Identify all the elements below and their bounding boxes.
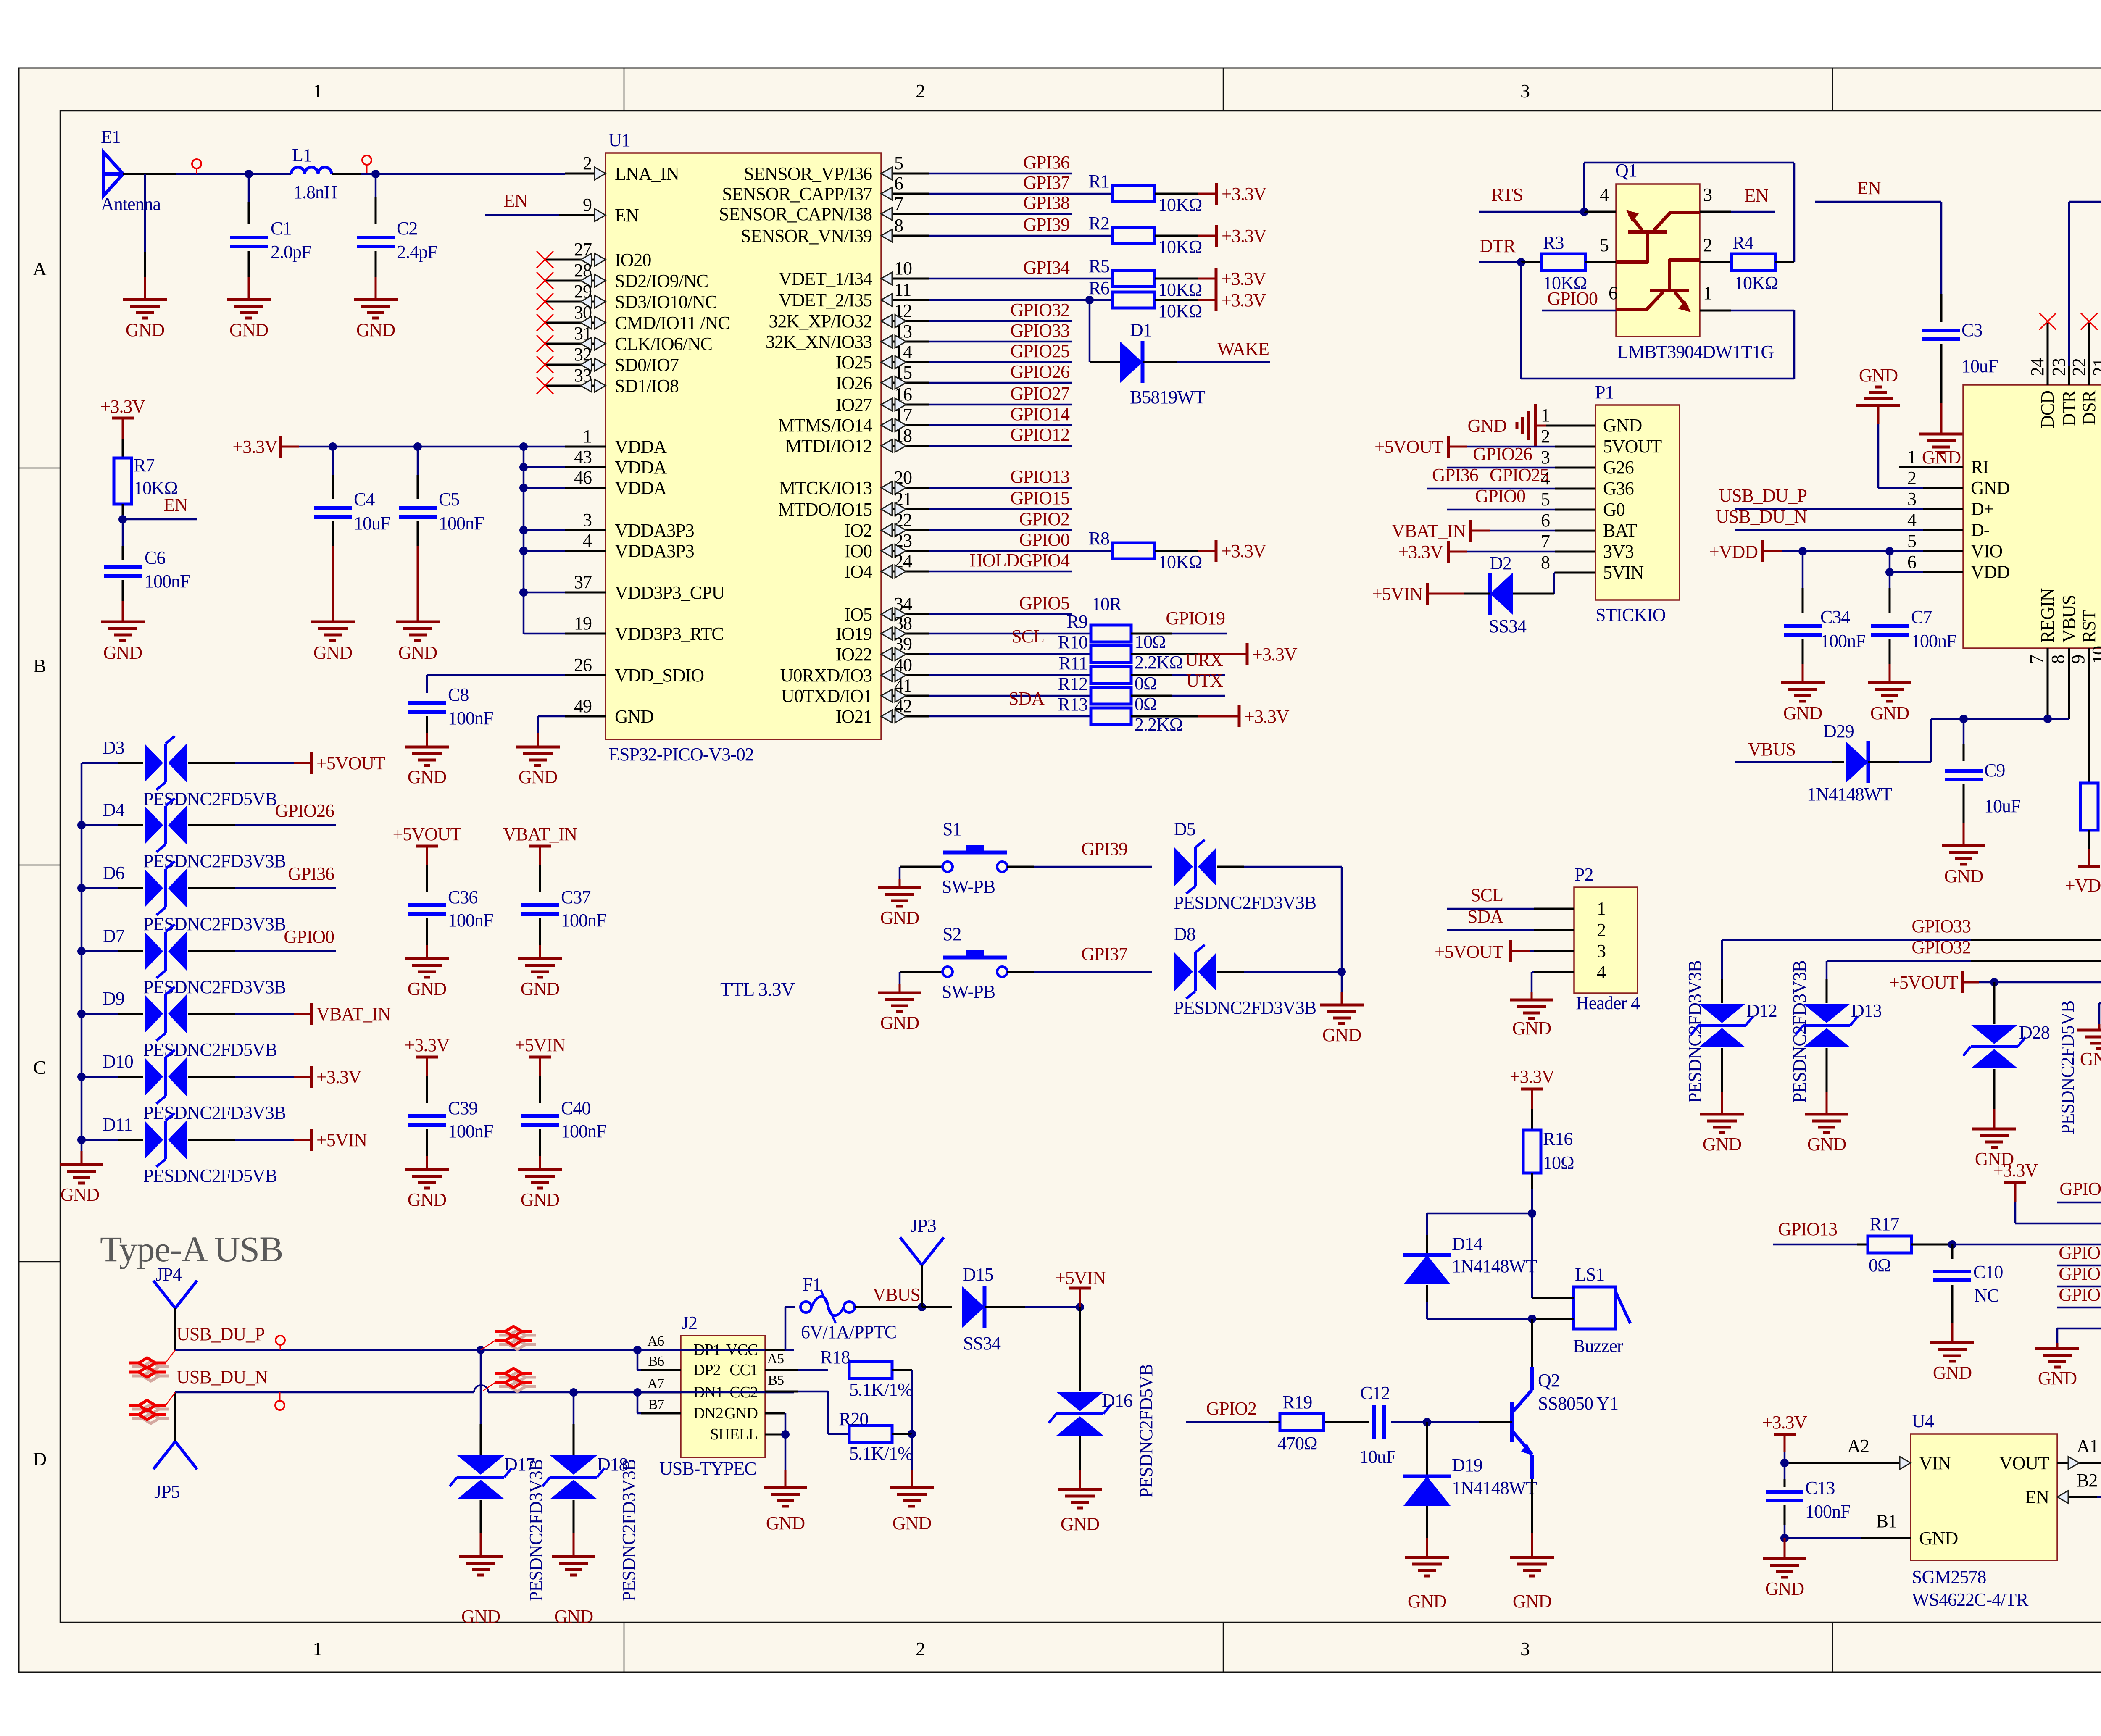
U2 pin 23 DTR	[2068, 366, 2070, 385]
resistor R1	[1113, 186, 1155, 202]
net USB_DU_P U2	[1735, 508, 1923, 510]
svg-text:5: 5	[1907, 531, 1916, 551]
svg-text:+5VOUT: +5VOUT	[316, 753, 385, 773]
svg-text:1: 1	[1907, 447, 1916, 467]
U1 pin 15 IO26	[881, 382, 929, 384]
svg-text:DP2: DP2	[693, 1361, 721, 1379]
U1 pin 30 CMD/IO11 /NC	[545, 322, 606, 324]
wire S2 to D8	[1007, 971, 1034, 973]
wire R18 right	[892, 1369, 912, 1371]
svg-text:R12: R12	[1058, 673, 1087, 694]
svg-text:10: 10	[2088, 646, 2101, 664]
P1 pin 3 G26	[1555, 467, 1595, 469]
svg-text:10KΩ: 10KΩ	[1158, 237, 1202, 257]
svg-text:+VDD: +VDD	[1709, 542, 1758, 562]
svg-text:DN2: DN2	[693, 1405, 723, 1422]
wire D13 drop	[1826, 961, 1828, 979]
wire to vdd pin	[524, 466, 565, 468]
svg-text:10: 10	[894, 258, 912, 279]
wire S1 to D5	[1007, 866, 1034, 868]
svg-text:JP4: JP4	[156, 1264, 182, 1285]
svg-text:100nF: 100nF	[448, 708, 493, 729]
svg-text:GND: GND	[1971, 478, 2010, 498]
U2 pin 8 VBUS	[2068, 648, 2070, 719]
svg-text:IO2: IO2	[845, 520, 872, 541]
svg-text:NC: NC	[1974, 1285, 1999, 1306]
svg-text:5: 5	[894, 153, 903, 174]
svg-text:+3.3V: +3.3V	[316, 1067, 362, 1087]
svg-text:3: 3	[1520, 1638, 1530, 1660]
resistor R3	[1542, 254, 1585, 271]
svg-text:C10: C10	[1973, 1262, 2003, 1282]
wire P2 pin4 gnd	[1532, 971, 1534, 973]
svg-text:D2: D2	[1490, 553, 1511, 573]
svg-text:49: 49	[574, 696, 592, 716]
svg-text:D+: D+	[1971, 499, 1994, 519]
svg-text:C2: C2	[397, 218, 417, 239]
node J2 A6 junction	[633, 1346, 642, 1354]
wire S1 gnd side	[900, 866, 943, 868]
wire EN drop to C3	[1940, 202, 1943, 294]
svg-text:GND: GND	[724, 1405, 758, 1422]
svg-text:R17: R17	[1869, 1214, 1899, 1234]
svg-text:NC: NC	[2099, 618, 2101, 643]
svg-text:D29: D29	[1823, 721, 1854, 742]
svg-text:TXD: TXD	[2099, 391, 2101, 428]
U2 pin 22 DSR	[2088, 323, 2090, 385]
svg-text:VDET_2/I35: VDET_2/I35	[779, 290, 872, 310]
ground Q2	[1510, 1557, 1554, 1576]
net GPIO2	[1269, 1421, 1280, 1423]
svg-text:GND: GND	[1922, 447, 1961, 468]
svg-text:2: 2	[583, 153, 592, 174]
U1 pin 26 VDD_SDIO	[565, 674, 606, 676]
svg-text:VIO: VIO	[1971, 541, 2002, 561]
ground C36	[405, 959, 449, 977]
svg-text:GPIO15: GPIO15	[2059, 1242, 2101, 1263]
svg-text:PESDNC2FD3V3B: PESDNC2FD3V3B	[526, 1459, 546, 1602]
svg-text:EN: EN	[163, 494, 187, 515]
U2 pin 5 VIO	[1923, 550, 1963, 552]
ground D18	[552, 1557, 595, 1575]
svg-text:GND: GND	[1807, 1134, 1846, 1155]
svg-text:PESDNC2FD3V3B: PESDNC2FD3V3B	[143, 977, 286, 997]
U2 pin 6 VDD	[1923, 571, 1963, 573]
svg-text:GND: GND	[615, 706, 654, 727]
svg-text:D13: D13	[1851, 1000, 1882, 1021]
connector J2 USB-TYPEC body	[681, 1336, 765, 1457]
svg-text:MTDO/IO15: MTDO/IO15	[778, 499, 872, 520]
svg-text:USB_DU_P: USB_DU_P	[1719, 485, 1807, 506]
svg-text:A6: A6	[647, 1334, 664, 1349]
resistor R2	[1113, 228, 1155, 244]
svg-text:100nF: 100nF	[1805, 1501, 1850, 1522]
net GPIO14 U3	[2057, 1286, 2101, 1288]
svg-text:D28: D28	[2019, 1022, 2050, 1043]
svg-text:GND: GND	[408, 767, 447, 787]
net GPIO32	[929, 320, 1072, 322]
svg-text:GPIO2: GPIO2	[1206, 1398, 1256, 1419]
svg-text:R8: R8	[1089, 528, 1109, 549]
net GPIO32 J1	[1827, 960, 1971, 962]
wire C2 to gnd	[375, 251, 377, 277]
svg-text:GPIO2: GPIO2	[1019, 509, 1069, 529]
svg-text:EN: EN	[503, 190, 527, 211]
svg-text:PESDNC2FD5VB: PESDNC2FD5VB	[143, 1165, 277, 1186]
net GPIO26	[929, 382, 1072, 384]
svg-text:5: 5	[1541, 489, 1550, 510]
resistor R8	[1113, 543, 1155, 559]
svg-text:2: 2	[1541, 426, 1550, 447]
svg-text:+3.3V: +3.3V	[1510, 1066, 1555, 1087]
node USB N junction	[569, 1388, 578, 1397]
ground S2	[878, 993, 921, 1011]
node R16 bottom	[1528, 1209, 1536, 1218]
svg-text:D3: D3	[103, 737, 124, 758]
resistor R19	[1280, 1414, 1324, 1431]
svg-text:100nF: 100nF	[448, 1121, 493, 1142]
ic U1 ESP32-PICO-V3-02 body	[606, 153, 881, 739]
net GPIO5 U3	[2057, 1202, 2101, 1204]
svg-text:ESP32-PICO-V3-02: ESP32-PICO-V3-02	[608, 744, 754, 765]
net GPI36	[929, 173, 1072, 175]
capacitor C7	[1871, 624, 1909, 628]
svg-text:VDDA: VDDA	[615, 437, 667, 457]
ground C37	[518, 959, 562, 977]
svg-text:R5: R5	[1089, 256, 1109, 276]
svg-text:3: 3	[1703, 184, 1712, 205]
svg-text:SENSOR_CAPN/I38: SENSOR_CAPN/I38	[719, 204, 872, 224]
net GPIO12	[929, 445, 1072, 447]
node junction C2	[371, 170, 380, 178]
net GPIO26 P1	[1447, 467, 1555, 469]
svg-text:B7: B7	[648, 1397, 664, 1412]
U1 pin 34 IO5	[881, 613, 929, 615]
diode D15 SS34	[962, 1286, 985, 1328]
U1 pin 3 VDDA3P3	[565, 529, 606, 531]
svg-text:D9: D9	[103, 988, 124, 1009]
wire TVS left bus	[81, 763, 83, 1140]
U1 pin 42 IO21	[881, 715, 929, 718]
node +5VIN junction	[1076, 1303, 1084, 1311]
svg-text:IO22: IO22	[836, 644, 872, 665]
net EN to C3	[1815, 201, 1941, 203]
svg-text:U4: U4	[1912, 1411, 1934, 1431]
svg-text:GPIO26: GPIO26	[275, 800, 334, 821]
U1 pin 1 VDDA	[565, 446, 606, 448]
U1 pin 5 SENSOR_VP/I36	[881, 173, 929, 175]
svg-text:E1: E1	[101, 126, 121, 147]
svg-text:B5819WT: B5819WT	[1130, 387, 1206, 408]
svg-text:SENSOR_CAPP/I37: SENSOR_CAPP/I37	[722, 184, 872, 204]
svg-text:BAT: BAT	[1603, 520, 1637, 541]
node C9 tap	[1959, 715, 1968, 723]
svg-text:22: 22	[2069, 358, 2089, 376]
svg-text:GND: GND	[1468, 416, 1507, 436]
wire R17 to U3 pin3	[1952, 1244, 2101, 1246]
svg-text:+3.3V: +3.3V	[1762, 1412, 1808, 1433]
svg-text:GPI39: GPI39	[1081, 839, 1127, 859]
svg-text:GND: GND	[1765, 1578, 1804, 1599]
U1 pin 41 U0TXD/IO1	[881, 695, 929, 697]
svg-text:+5VIN: +5VIN	[316, 1130, 367, 1150]
wire C10 drop	[1951, 1244, 1954, 1259]
J2 pin A7	[641, 1391, 681, 1394]
svg-text:21: 21	[2089, 358, 2101, 376]
svg-text:8: 8	[2048, 655, 2068, 664]
svg-text:R10: R10	[1058, 632, 1087, 652]
svg-text:100nF: 100nF	[561, 910, 606, 931]
svg-text:2: 2	[1907, 468, 1916, 488]
wire VBUS bus	[1931, 718, 2069, 720]
U1 pin 13 32K_XN/IO33	[881, 341, 929, 343]
U2 pin 9 RST	[2088, 648, 2090, 724]
ground S1	[878, 888, 921, 906]
U1 pin 46 VDDA	[565, 487, 606, 489]
svg-text:GND: GND	[1933, 1362, 1972, 1383]
tvs diode D17 PESDNC2FD3V3B	[457, 1455, 504, 1475]
diffpair marker 1	[132, 1362, 169, 1381]
svg-text:+5VOUT: +5VOUT	[392, 824, 461, 844]
svg-text:B6: B6	[648, 1354, 664, 1369]
capacitor C3	[1922, 329, 1960, 332]
svg-text:D: D	[33, 1448, 46, 1470]
net DTR Q1	[1479, 261, 1519, 263]
ground C13	[1763, 1559, 1806, 1577]
ground J2	[764, 1488, 807, 1506]
svg-text:VDET_1/I34: VDET_1/I34	[779, 268, 872, 289]
ground C8	[405, 747, 449, 765]
svg-text:PESDNC2FD3V3B: PESDNC2FD3V3B	[1685, 960, 1705, 1103]
svg-text:GPI37: GPI37	[1081, 944, 1127, 964]
svg-text:U0RXD/IO3: U0RXD/IO3	[780, 665, 872, 686]
resistor R4	[1732, 254, 1775, 271]
svg-text:1: 1	[1597, 898, 1606, 919]
diode D29 1N4148WT	[1846, 741, 1868, 783]
svg-text:R20: R20	[839, 1409, 868, 1429]
wire R1 to 3.3V	[1155, 193, 1198, 195]
svg-text:U0TXD/IO1: U0TXD/IO1	[781, 686, 872, 706]
wire pin26 to C8	[427, 674, 565, 676]
svg-text:GPIO0: GPIO0	[284, 926, 334, 947]
wire to vdd pin	[524, 529, 565, 531]
svg-text:UTX: UTX	[1186, 670, 1223, 691]
tvs diode D8 PESDNC2FD3V3B	[1174, 952, 1193, 991]
net GPIO5	[929, 613, 1072, 615]
testpoint circle	[192, 159, 201, 168]
wire Q2 emitter gnd	[1531, 1479, 1533, 1533]
svg-text:MTMS/IO14: MTMS/IO14	[778, 415, 872, 436]
svg-text:EN: EN	[615, 205, 639, 226]
testpoint circle 2	[362, 155, 371, 165]
svg-text:USB-TYPEC: USB-TYPEC	[659, 1458, 756, 1479]
svg-text:C5: C5	[439, 489, 459, 510]
net GPIO33	[929, 341, 1072, 343]
svg-text:VBUS: VBUS	[2059, 595, 2079, 643]
svg-text:GPIO5: GPIO5	[2059, 1178, 2101, 1199]
U1 pin 16 IO27	[881, 404, 929, 406]
svg-text:VOUT: VOUT	[1999, 1453, 2049, 1473]
ground D19	[1405, 1557, 1449, 1576]
svg-text:GND: GND	[1783, 703, 1822, 723]
svg-text:GND: GND	[2080, 1049, 2101, 1069]
svg-text:USB_DU_N: USB_DU_N	[176, 1367, 268, 1387]
svg-text:+3.3V: +3.3V	[1252, 644, 1298, 665]
power +5VIN J2	[1079, 1288, 1081, 1307]
resistor R20	[849, 1426, 892, 1442]
svg-text:D8: D8	[1174, 924, 1195, 944]
svg-text:D16: D16	[1102, 1390, 1132, 1411]
wire D15 to +5VIN	[985, 1306, 1025, 1308]
wire VIO to VDD	[1889, 551, 1891, 572]
wire to pin19	[524, 633, 565, 635]
svg-text:A5: A5	[767, 1351, 784, 1367]
U4 pin A1 VOUT wire	[2057, 1462, 2101, 1464]
svg-text:C: C	[33, 1057, 46, 1078]
capacitor C9	[1945, 769, 1983, 773]
svg-text:D12: D12	[1746, 1000, 1777, 1021]
connector P2 Header4 body	[1574, 887, 1638, 993]
resistor R13	[929, 715, 1090, 718]
svg-text:R11: R11	[1058, 653, 1087, 673]
P1 pin 6 BAT	[1555, 530, 1595, 532]
switch S2 SW-PB	[943, 967, 953, 977]
tvs diode D28 PESDNC2FD5VB	[1971, 1025, 2018, 1044]
svg-text:DSR: DSR	[2079, 390, 2099, 425]
svg-text:MTDI/IO12: MTDI/IO12	[785, 436, 872, 456]
svg-text:C34: C34	[1820, 607, 1850, 627]
diode D14 1N4148WT	[1403, 1255, 1451, 1284]
svg-text:R19: R19	[1282, 1392, 1312, 1412]
tvs diode D10 PESDNC2FD3V3B	[77, 1073, 86, 1081]
svg-text:IO27: IO27	[836, 395, 872, 415]
svg-text:GND: GND	[893, 1513, 932, 1533]
U2 pin 4 D-	[1923, 529, 1963, 531]
svg-text:P2: P2	[1574, 864, 1593, 885]
svg-text:GPIO0: GPIO0	[1547, 288, 1598, 309]
svg-text:S2: S2	[943, 924, 961, 944]
svg-text:RST: RST	[2079, 610, 2099, 643]
svg-text:VDD3P3_CPU: VDD3P3_CPU	[615, 582, 725, 603]
svg-text:C40: C40	[561, 1098, 590, 1118]
svg-text:+5VIN: +5VIN	[1055, 1268, 1106, 1288]
column dividers	[624, 68, 625, 111]
U1 pin 23 IO0	[881, 550, 929, 552]
node D1 tap	[1085, 296, 1094, 304]
svg-text:SCL: SCL	[1011, 626, 1044, 647]
svg-text:2: 2	[916, 80, 925, 102]
svg-text:8: 8	[894, 215, 903, 236]
P1 pin 1 GND	[1555, 425, 1595, 427]
svg-text:GND: GND	[1859, 365, 1898, 386]
svg-text:+5VIN: +5VIN	[515, 1035, 565, 1055]
ground D28	[1972, 1129, 2016, 1147]
ground C10	[1930, 1343, 1974, 1361]
svg-text:GND: GND	[126, 320, 165, 340]
svg-text:PESDNC2FD3V3B: PESDNC2FD3V3B	[1174, 892, 1316, 913]
svg-text:100nF: 100nF	[439, 513, 484, 534]
svg-text:1N4148WT: 1N4148WT	[1807, 784, 1892, 805]
wire Q1 cross loop top	[1583, 163, 1585, 212]
ground D8	[1320, 1005, 1364, 1023]
svg-text:7: 7	[1541, 531, 1550, 552]
power +3.3V R13	[1238, 705, 1241, 727]
svg-text:G26: G26	[1603, 457, 1634, 478]
power +3.3V R6	[1215, 289, 1218, 311]
P2 pin 3	[1534, 950, 1574, 952]
antenna E1	[103, 152, 123, 196]
capacitor C6	[104, 565, 142, 569]
svg-text:IO0: IO0	[845, 541, 872, 561]
wire to vdd pin	[524, 550, 565, 552]
svg-text:PESDNC2FD5VB: PESDNC2FD5VB	[1136, 1364, 1156, 1498]
svg-text:2: 2	[1597, 920, 1606, 940]
svg-text:SCL: SCL	[1470, 885, 1503, 905]
power +3.3V R2	[1215, 225, 1218, 247]
ground P2	[1510, 1000, 1553, 1018]
svg-text:GPIO13: GPIO13	[1010, 466, 1069, 487]
ground TVS bus	[60, 1165, 103, 1183]
svg-text:D19: D19	[1452, 1455, 1482, 1476]
svg-text:GPIO13: GPIO13	[1778, 1219, 1837, 1239]
power +VDD R14	[2078, 865, 2100, 868]
svg-text:10Ω: 10Ω	[1543, 1152, 1574, 1173]
svg-text:GND: GND	[1322, 1025, 1361, 1045]
svg-text:IO21: IO21	[836, 706, 872, 727]
node VBUS junction	[918, 1303, 926, 1311]
net label EN to U1 pin9	[485, 214, 559, 216]
svg-text:VDD_SDIO: VDD_SDIO	[615, 665, 704, 686]
ground C40	[518, 1170, 562, 1188]
svg-text:D1: D1	[1130, 320, 1152, 340]
wire VBUS to D15	[922, 1306, 952, 1308]
svg-text:1: 1	[583, 426, 592, 447]
svg-text:JP3: JP3	[911, 1215, 936, 1236]
U1 pin 10 VDET_1/I34	[881, 278, 929, 280]
wire B6 join	[637, 1349, 794, 1351]
svg-text:3: 3	[1907, 489, 1916, 509]
svg-text:6V/1A/PPTC: 6V/1A/PPTC	[801, 1322, 896, 1342]
svg-text:GND: GND	[408, 978, 447, 999]
svg-text:4: 4	[583, 530, 592, 551]
svg-text:C7: C7	[1911, 607, 1932, 627]
power +5VOUT D3	[310, 752, 313, 774]
svg-text:C13: C13	[1805, 1478, 1835, 1498]
svg-text:2: 2	[916, 1638, 925, 1660]
ground R20	[890, 1488, 934, 1506]
U1 pin 7 SENSOR_CAPN/I38	[881, 213, 929, 215]
no-connect X pin22	[2081, 313, 2098, 330]
svg-text:C39: C39	[448, 1098, 477, 1118]
svg-text:RTS: RTS	[1491, 184, 1523, 205]
svg-text:GPI36: GPI36	[288, 863, 334, 884]
U1 pin 17 MTMS/IO14	[881, 424, 929, 426]
svg-text:J2: J2	[682, 1313, 697, 1333]
U4 pin B2 EN wire	[2057, 1496, 2097, 1498]
svg-text:GND: GND	[229, 320, 269, 340]
wire C13 gnd	[1784, 1538, 1786, 1559]
J2 pin A6	[641, 1349, 681, 1351]
node C13 top	[1780, 1459, 1789, 1467]
power +3.3V R5	[1215, 268, 1218, 289]
svg-text:SS34: SS34	[963, 1333, 1001, 1354]
tvs diode D7 PESDNC2FD3V3B	[77, 947, 86, 955]
node vdd pin	[519, 484, 528, 492]
ground C3	[1919, 434, 1963, 452]
svg-text:GND: GND	[1512, 1018, 1551, 1039]
svg-text:4: 4	[1907, 510, 1917, 530]
capacitor C5	[399, 506, 437, 510]
